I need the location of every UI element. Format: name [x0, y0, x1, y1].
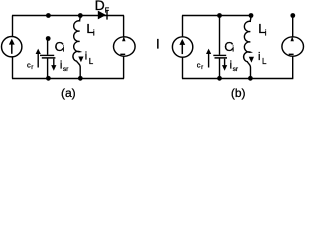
current arrow isr (a)	[51, 59, 56, 71]
inductor Li (a)	[73, 16, 80, 79]
label isr (a)	[60, 60, 69, 74]
node top cap (b)	[217, 13, 222, 18]
wire top (b)	[182, 15, 251, 17]
wire top (a)	[12, 15, 124, 17]
svg-text:L: L	[262, 57, 267, 66]
wire bottom (b)	[182, 78, 293, 80]
svg-text:i: i	[85, 51, 87, 63]
label Ci (a)	[55, 39, 65, 54]
label iL (a)	[85, 51, 94, 66]
svg-text:sr: sr	[63, 66, 69, 73]
capacitor Ci (a)	[40, 36, 55, 78]
label iL (b)	[258, 51, 267, 66]
wire left rail bottom (b)	[182, 58, 184, 79]
node bottom cap (b)	[217, 76, 222, 81]
current arrow iL (a)	[78, 57, 83, 63]
wire left rail top (a)	[12, 16, 14, 37]
voltage arrow cr (b)	[206, 49, 211, 68]
label Li (b)	[258, 21, 267, 38]
wire left rail bottom (a)	[12, 57, 14, 78]
current arrow isr (b)	[222, 59, 227, 71]
wire bottom (a)	[12, 78, 124, 80]
svg-text:L: L	[89, 57, 94, 66]
capacitor Ci (b)	[213, 16, 227, 79]
wire right rail top (a)	[123, 16, 125, 37]
current source I4 (b right)	[282, 36, 304, 56]
svg-text:sr: sr	[233, 66, 239, 73]
node top ind (a)	[78, 13, 83, 18]
voltage arrow cr (a)	[36, 49, 41, 68]
diode DF	[98, 10, 107, 20]
node bottom cap (a)	[46, 76, 51, 81]
svg-text:F: F	[105, 6, 110, 15]
current source I3 (b left)	[172, 37, 192, 57]
inductor Li (b)	[244, 16, 251, 79]
label DF	[95, 0, 110, 15]
wire right rail top (b)	[292, 16, 294, 38]
label cr (b)	[197, 61, 203, 71]
svg-text:(a): (a)	[61, 86, 76, 100]
label cr (a)	[27, 61, 33, 71]
node bottom ind (a)	[78, 76, 83, 81]
svg-text:r: r	[201, 65, 203, 71]
svg-text:i: i	[93, 29, 95, 38]
current arrow iL (b)	[249, 57, 254, 63]
svg-text:i: i	[63, 45, 65, 54]
node bottom ind (b)	[248, 76, 253, 81]
svg-text:i: i	[265, 29, 267, 38]
label Ci (b)	[224, 39, 234, 54]
svg-text:i: i	[258, 51, 260, 63]
current source I1 (a left)	[2, 37, 22, 57]
svg-text:i: i	[232, 45, 234, 54]
svg-text:(b): (b)	[231, 86, 246, 100]
svg-text:D: D	[95, 0, 105, 13]
wire right rail bottom (a)	[123, 56, 125, 78]
node top ind (b)	[249, 13, 254, 18]
svg-text:r: r	[31, 65, 33, 71]
wire left rail top (b)	[182, 16, 184, 37]
label isr (b)	[230, 60, 239, 74]
node top right (b)	[290, 13, 295, 18]
svg-text:I: I	[156, 36, 160, 52]
label Li (a)	[86, 21, 95, 38]
current source I2 (a right)	[114, 36, 136, 56]
node top cap (a)	[46, 13, 51, 18]
wire right rail bottom (b)	[292, 56, 294, 78]
